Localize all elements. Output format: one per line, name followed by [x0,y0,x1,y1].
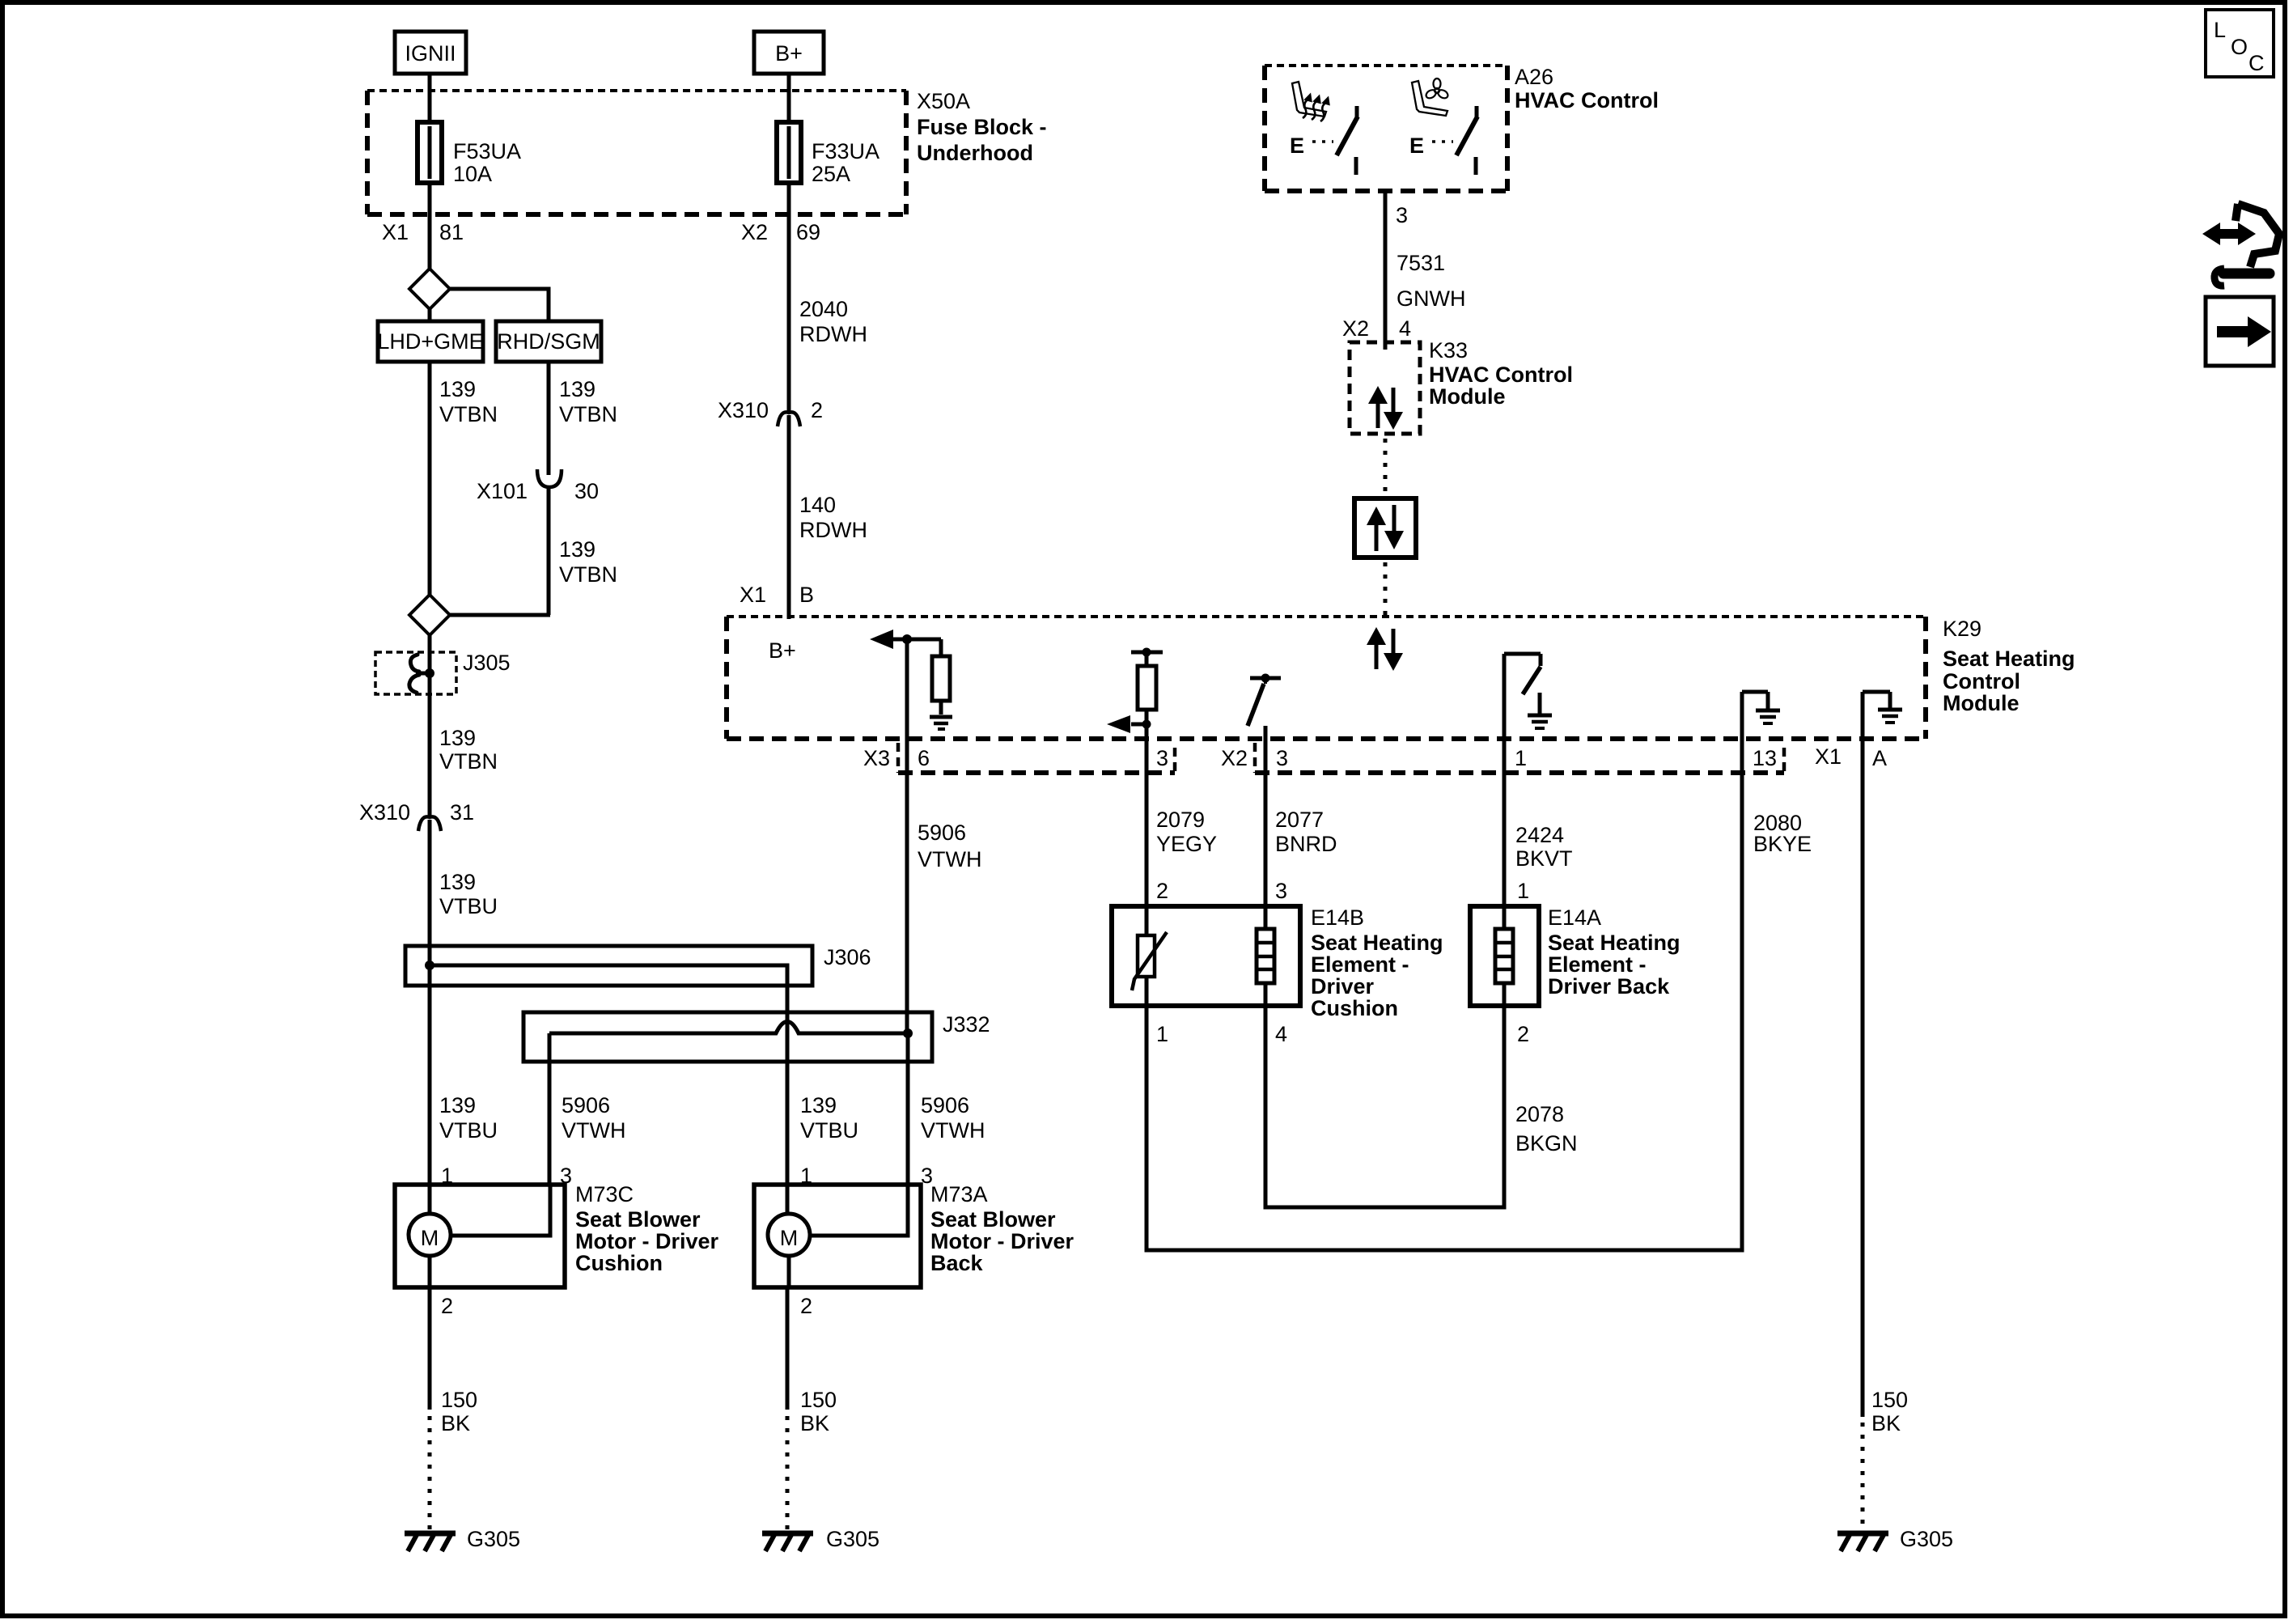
wire 2080 BKYE [1146,739,1742,1250]
svg-text:VTBN: VTBN [439,402,498,426]
ventilated seat icon [1412,78,1449,116]
svg-text:X2: X2 [741,220,768,244]
svg-text:81: 81 [439,220,464,244]
wire diamond to RHD/SGM [448,289,549,321]
svg-text:Element -: Element - [1311,952,1409,977]
wire 2079 YEGY [1146,724,1217,906]
svg-text:2040: 2040 [799,297,848,321]
svg-text:3: 3 [1156,746,1168,770]
svg-text:A26: A26 [1515,65,1553,89]
wire label 5906 VTWH back [921,1093,985,1143]
K29 junction dot pin 6 rail [902,634,912,644]
wire 2077 BNRD [1265,726,1337,906]
svg-text:30: 30 [574,479,599,503]
svg-text:X50A: X50A [917,89,970,113]
K29 switch column cushion heat [1248,674,1281,727]
variant box LHD+GME [377,321,483,362]
svg-text:GNWH: GNWH [1397,286,1465,311]
svg-text:Fuse Block -: Fuse Block - [917,115,1047,139]
svg-text:31: 31 [450,800,474,825]
svg-text:X3: X3 [863,746,890,770]
svg-text:5906: 5906 [918,820,966,845]
svg-text:YEGY: YEGY [1156,832,1217,856]
svg-text:X2: X2 [1221,746,1248,770]
option splice diamond upper [409,269,450,309]
svg-text:2078: 2078 [1515,1102,1564,1126]
wire 139 VTBU above J306 [430,820,498,946]
heated seat icon [1292,82,1333,123]
svg-text:BK: BK [800,1411,829,1435]
ground G305 back [762,1527,879,1551]
svg-text:Module: Module [1943,691,2020,715]
svg-text:J305: J305 [463,651,511,675]
svg-text:Underhood: Underhood [917,141,1033,165]
dotted ground lead cushion [428,1416,432,1529]
svg-text:1: 1 [1515,746,1527,770]
ground G305 right [1837,1527,1953,1551]
fuse block X50A dashed box [367,89,1047,214]
variant box RHD/SGM [496,321,601,362]
dotted ground lead back [786,1416,790,1529]
svg-text:LHD+GME: LHD+GME [377,329,483,354]
svg-text:F33UA: F33UA [812,139,879,163]
wire label 5906 VTWH at K29 [918,820,981,871]
svg-text:5906: 5906 [562,1093,610,1117]
wire diamond to LHD+GME [428,309,432,321]
fuse F33UA 25A [777,122,879,186]
svg-text:X101: X101 [477,479,528,503]
HVAC control module K33 dashed box [1350,338,1573,434]
svg-text:Seat Blower: Seat Blower [575,1207,701,1232]
wire 139 VTBN below LHD+GME [430,362,498,596]
junction dot J332 [903,1028,913,1038]
thermistor in E14B [1132,906,1167,1006]
next page arrow icon [2206,297,2274,366]
svg-text:Module: Module [1429,384,1506,409]
svg-text:2: 2 [1156,879,1168,903]
power feed box IGNII [395,32,466,74]
wire B+ to fuse F33UA [787,74,791,124]
switch seat heating in A26 [1290,106,1358,175]
svg-text:X2: X2 [1342,316,1369,341]
seat blower motor M73C box [395,1182,719,1287]
svg-text:F53UA: F53UA [453,139,521,163]
pin X2 4 of K33 [1342,316,1411,341]
serial data arrows in K29 [1367,627,1403,671]
junction dot J306 [425,960,434,970]
K29 feed arrow toward B+ [870,630,941,649]
svg-text:VTBU: VTBU [439,1118,498,1143]
svg-text:Driver Back: Driver Back [1548,974,1670,999]
HVAC control A26 dashed box [1265,65,1659,191]
svg-text:K29: K29 [1943,617,1981,641]
svg-text:A: A [1872,746,1887,770]
seat heating element E14A box [1470,905,1681,1006]
svg-text:E: E [1409,134,1424,158]
wire 2078 BKGN [1265,1006,1578,1207]
wire J306 branch to back motor [430,965,787,1185]
svg-text:M73C: M73C [575,1182,634,1206]
wire label 7531 GNWH [1397,251,1465,311]
harness routing icon [2202,204,2279,286]
svg-text:J306: J306 [824,945,871,969]
svg-text:BK: BK [1871,1411,1901,1435]
svg-text:K33: K33 [1429,338,1468,363]
svg-text:B+: B+ [775,41,803,66]
svg-text:139: 139 [439,1093,476,1117]
pin X2 69 of X50A [741,220,820,244]
splice pack J305 [375,651,511,694]
svg-text:3: 3 [1275,879,1287,903]
pin X1 B of K29 [740,583,814,607]
svg-text:1: 1 [1517,879,1529,903]
svg-text:139: 139 [559,377,596,401]
pin X3 6 of K29 [863,746,930,770]
svg-text:M: M [421,1226,439,1250]
svg-text:VTWH: VTWH [562,1118,625,1143]
svg-text:VTBU: VTBU [439,894,498,918]
svg-text:B: B [799,583,814,607]
svg-text:Seat Blower: Seat Blower [930,1207,1056,1232]
K29 internal resistor to ground [932,639,950,714]
svg-text:Control: Control [1943,669,2020,693]
K29 pin A internal ground [1863,692,1902,739]
wire 150 BK module ground [1863,739,1908,1435]
svg-text:RDWH: RDWH [799,518,867,542]
svg-text:J332: J332 [943,1012,990,1037]
svg-text:6: 6 [918,746,930,770]
pin X2 3 of K29 [1221,746,1288,770]
svg-text:150: 150 [800,1388,837,1412]
svg-text:Motor - Driver: Motor - Driver [575,1229,719,1253]
svg-text:139: 139 [439,377,476,401]
wire 2040 RDWH [789,183,867,413]
wire J332 to M73C pin 3 [548,1033,552,1185]
svg-text:Driver: Driver [1311,974,1375,999]
svg-text:5906: 5906 [921,1093,969,1117]
svg-text:Motor - Driver: Motor - Driver [930,1229,1074,1253]
wire inside J332 with hop over crossing [549,1022,908,1034]
svg-text:E14A: E14A [1548,905,1601,930]
svg-text:2077: 2077 [1275,808,1324,832]
svg-text:150: 150 [441,1388,477,1412]
switch seat blower in A26 [1409,106,1477,175]
pin X1 81 of X50A [382,220,464,244]
wire 139 VTBN below RHD/SGM [549,362,617,475]
svg-text:VTBN: VTBN [559,402,617,426]
svg-text:25A: 25A [812,162,850,186]
option splice diamond lower [409,595,450,635]
dotted ground lead right [1861,1423,1865,1529]
svg-text:150: 150 [1871,1388,1908,1412]
dotted serial data wire gateway to K29 [1384,562,1388,617]
svg-text:139: 139 [439,870,476,894]
seat blower motor M73A box [754,1182,1074,1287]
svg-text:X1: X1 [1815,744,1842,769]
svg-text:10A: 10A [453,162,492,186]
svg-text:M: M [780,1226,799,1250]
svg-text:Seat Heating: Seat Heating [1548,931,1681,955]
svg-text:140: 140 [799,493,836,517]
K29 sense resistor column [1107,648,1163,734]
motor symbol M73C [409,1185,550,1287]
svg-text:X1: X1 [382,220,409,244]
power feed box B+ [754,32,824,74]
svg-text:G305: G305 [1900,1527,1953,1551]
svg-text:C: C [2248,51,2265,75]
K29 switch column back heat [1504,654,1541,739]
svg-text:BKVT: BKVT [1515,846,1573,871]
ground G305 cushion [405,1527,520,1551]
heating element symbol in E14B [1257,906,1274,1006]
svg-text:G305: G305 [826,1527,879,1551]
LOC legend box [2206,10,2274,77]
svg-text:2424: 2424 [1515,823,1564,847]
wire J306 to M73C pin 1 [428,986,432,1185]
svg-text:HVAC Control: HVAC Control [1429,363,1573,387]
svg-text:X310: X310 [359,800,410,825]
svg-text:VTWH: VTWH [921,1118,985,1143]
svg-text:RHD/SGM: RHD/SGM [497,329,600,354]
svg-text:4: 4 [1275,1022,1287,1046]
svg-text:O: O [2231,35,2248,59]
wire J332 to M73A pin 3 [906,1033,910,1185]
K29 pin connector boxes [898,743,1784,773]
svg-text:VTBN: VTBN [559,562,617,587]
svg-text:HVAC Control: HVAC Control [1515,88,1659,112]
serial data gateway icon [1354,498,1416,558]
wire A26 pin 3 to K33 [1385,191,1408,350]
svg-text:13: 13 [1753,746,1777,770]
K29 pin 13 internal ground [1742,692,1780,739]
pin X1 A of K29 [1815,744,1887,770]
inline connector X310 pin 31 [359,800,474,831]
svg-text:VTBU: VTBU [800,1118,858,1143]
svg-text:BKYE: BKYE [1753,832,1812,856]
svg-text:3: 3 [1276,746,1288,770]
svg-text:Seat Heating: Seat Heating [1311,931,1443,955]
svg-text:BKGN: BKGN [1515,1131,1578,1155]
wire 2424 BKVT [1504,739,1573,906]
svg-text:139: 139 [439,726,476,750]
svg-text:M73A: M73A [930,1182,988,1206]
inline connector X101 pin 30 [477,469,599,503]
svg-text:1: 1 [1156,1022,1168,1046]
svg-text:X310: X310 [718,398,769,422]
svg-text:VTBN: VTBN [439,749,498,774]
wire label 139 VTBU back [800,1093,858,1143]
seat heating element E14B box [1112,905,1443,1020]
splice J306 [405,945,871,986]
svg-text:139: 139 [559,537,596,562]
svg-text:IGNII: IGNII [405,41,456,66]
svg-text:E14B: E14B [1311,905,1364,930]
svg-text:Cushion: Cushion [1311,996,1398,1020]
svg-text:3: 3 [1396,203,1408,227]
motor symbol M73A [768,1185,908,1287]
svg-text:2: 2 [800,1294,812,1318]
svg-text:Seat Heating: Seat Heating [1943,647,2075,671]
K29 internal ground 1 [930,717,952,729]
wire IGNII to fuse F53UA [428,74,432,124]
svg-text:X1: X1 [740,583,766,607]
wire label 2080 BKYE [1753,811,1812,856]
svg-text:Element -: Element - [1548,952,1647,977]
svg-text:139: 139 [800,1093,837,1117]
splice J332 [523,1012,990,1062]
svg-text:4: 4 [1399,316,1411,341]
heating element symbol in E14A [1495,906,1513,1006]
svg-text:RDWH: RDWH [799,322,867,346]
inline connector X310 pin 2 [718,398,823,426]
svg-text:Cushion: Cushion [575,1251,663,1275]
wire label 5906 VTWH cushion [562,1093,625,1143]
svg-text:B+: B+ [769,638,796,663]
K29 internal ground 2 [1528,693,1552,728]
svg-text:E: E [1290,134,1304,158]
svg-text:G305: G305 [467,1527,520,1551]
svg-text:2: 2 [441,1294,453,1318]
wire RHD branch to lower diamond [448,613,550,617]
svg-text:2079: 2079 [1156,808,1205,832]
svg-text:L: L [2214,18,2226,42]
svg-text:7531: 7531 [1397,251,1445,275]
wire K29 pin 6 to J332 [905,639,909,1033]
wire 150 BK back motor [787,1287,837,1435]
fuse F53UA 10A [417,122,521,186]
wire 150 BK cushion motor [430,1287,477,1435]
dotted serial data wire K33 to gateway [1384,439,1388,498]
seat heating control module K29 dashed box [727,617,2075,739]
svg-text:BNRD: BNRD [1275,832,1337,856]
svg-text:Back: Back [930,1251,984,1275]
wire diamond to J305 [428,635,432,654]
wire 139 VTBN below J305 [430,652,498,816]
svg-text:VTWH: VTWH [918,847,981,871]
svg-text:2: 2 [1517,1022,1529,1046]
wire label 139 VTBU cushion [439,1093,498,1143]
serial data arrows in K33 [1368,386,1403,430]
svg-text:2: 2 [811,398,823,422]
wire 140 RDWH [789,415,867,619]
wire fuse F53UA to option diamond [428,183,432,270]
svg-text:BK: BK [441,1411,470,1435]
wire through J306 [428,946,432,986]
svg-text:69: 69 [796,220,820,244]
wire 139 VTBN below X101 [549,487,617,615]
